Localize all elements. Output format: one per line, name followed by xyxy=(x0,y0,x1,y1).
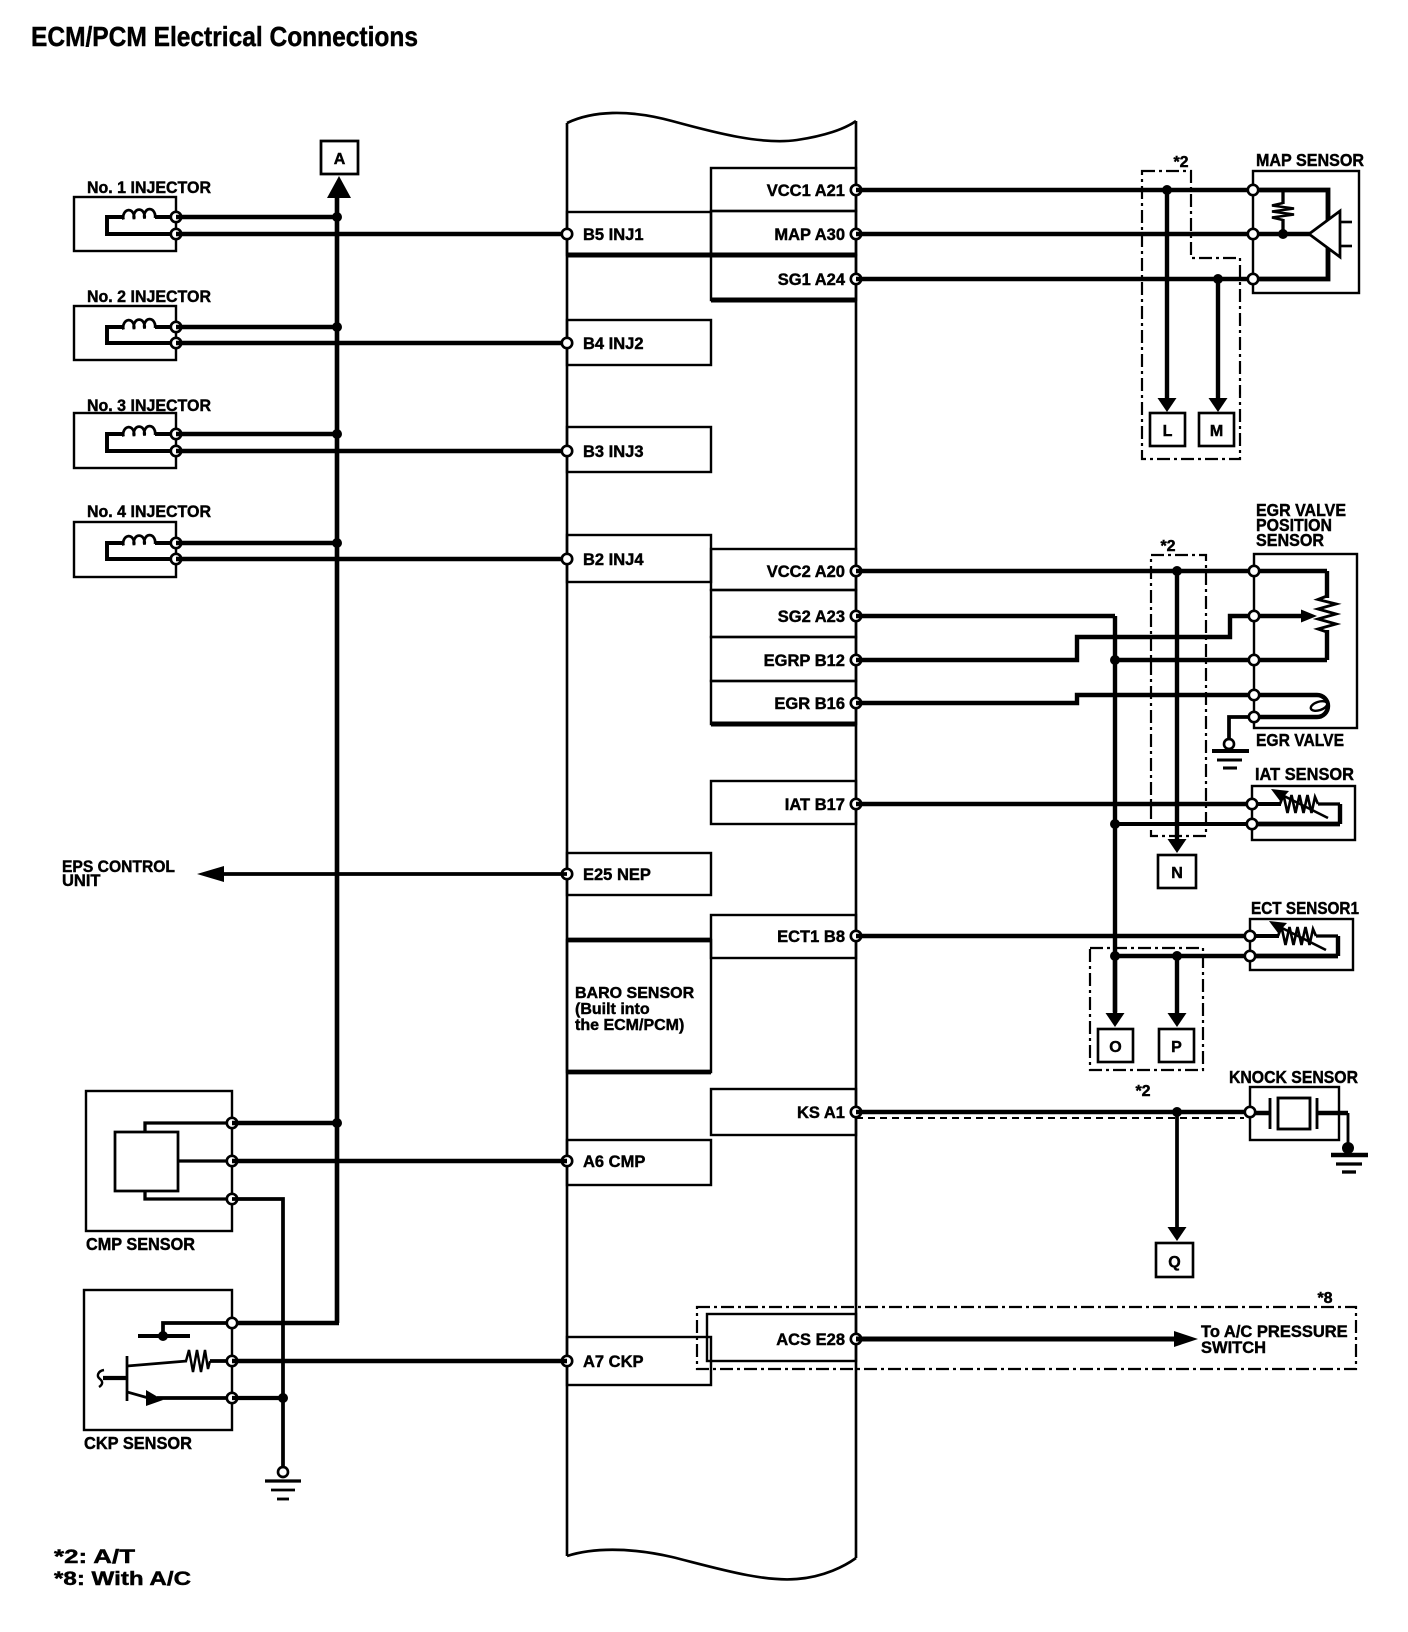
CKP ground symbol xyxy=(265,1467,301,1499)
wire MAP A30 to MAP sensor xyxy=(856,232,1253,236)
*2 label for O P box xyxy=(1135,1083,1150,1100)
ECT SENSOR1 label xyxy=(1251,898,1359,918)
injector No.4 box xyxy=(74,522,176,577)
EGR valve ground xyxy=(1212,739,1249,768)
ECM pin box VCC2 A20 xyxy=(711,549,856,590)
svg-text:ECM/PCM Electrical Connections: ECM/PCM Electrical Connections xyxy=(31,21,418,52)
knock sensor terminal xyxy=(1245,1107,1255,1117)
svg-text:ECT SENSOR1: ECT SENSOR1 xyxy=(1251,898,1359,918)
svg-text:the ECM/PCM): the ECM/PCM) xyxy=(575,1017,684,1034)
MAP SENSOR label xyxy=(1256,150,1364,170)
IAT sensor terminal signal xyxy=(1247,799,1257,809)
svg-text:*2: *2 xyxy=(1160,538,1175,555)
terminal MAP A30 xyxy=(851,229,861,239)
wire down to O xyxy=(1106,956,1125,1027)
dashed A/T box around O P xyxy=(1090,948,1203,1070)
ECM pin box EGR B16 xyxy=(711,681,856,724)
ECM pin box A6 CMP xyxy=(567,1140,711,1185)
wire SG1 A24 to MAP sensor xyxy=(856,277,1253,281)
wire CMP to A6 CMP xyxy=(232,1159,567,1163)
CKP sensor terminal middle xyxy=(227,1356,237,1366)
terminal EGR B16 xyxy=(851,698,861,708)
ECT sensor terminal signal xyxy=(1245,931,1255,941)
wire injector No.3 to bus xyxy=(176,432,337,436)
solenoid coil of injector No.3 xyxy=(107,426,176,451)
EGR valve terminal bottom xyxy=(1249,712,1259,722)
ECM pin box ECT1 B8 xyxy=(711,915,856,958)
ECM pin box VCC1 A21 xyxy=(711,168,856,211)
wire ACS E28 to A/C pressure switch xyxy=(856,1331,1198,1347)
MAP sensor resistor xyxy=(1272,190,1294,234)
wire down to L xyxy=(1158,190,1177,412)
svg-text:EGRP B12: EGRP B12 xyxy=(764,652,845,670)
MAP sensor terminal 3 xyxy=(1248,274,1258,284)
IAT SENSOR label xyxy=(1255,764,1354,784)
injector No.1 terminal top xyxy=(171,212,181,222)
EGR potentiometer bottom wire xyxy=(1254,658,1327,662)
ECM pin box B3 INJ3 xyxy=(567,427,711,472)
thick bottom edge of SG1 A24 box xyxy=(711,297,856,302)
wire injector No.3 to B3 INJ3 xyxy=(176,449,567,453)
CKP pickup core plate xyxy=(138,1323,232,1341)
wire IAT B17 to IAT sensor xyxy=(856,802,1252,806)
CKP pickup coil pole xyxy=(98,1356,127,1401)
junction on bus at injector No.2 xyxy=(332,322,342,332)
wire EGRP B12 with jogs to wiper xyxy=(856,616,1254,660)
svg-text:A7 CKP: A7 CKP xyxy=(583,1353,644,1371)
svg-text:Q: Q xyxy=(1168,1254,1180,1271)
terminal EGRP B12 xyxy=(851,655,861,665)
terminal B5 INJ1 xyxy=(562,229,572,239)
wire SG2 A23 right segment xyxy=(856,614,1115,618)
injector label No. 1 INJECTOR xyxy=(87,179,211,197)
svg-text:*8: With A/C: *8: With A/C xyxy=(54,1569,191,1590)
ECM pin box B2 INJ4 xyxy=(567,535,711,582)
connector O box xyxy=(1098,1029,1133,1062)
svg-text:IAT B17: IAT B17 xyxy=(785,796,845,814)
MAP sensor signal wire xyxy=(1253,232,1310,236)
svg-text:B3 INJ3: B3 INJ3 xyxy=(583,443,644,461)
connector N box xyxy=(1158,855,1196,888)
svg-text:ACS E28: ACS E28 xyxy=(776,1331,845,1349)
svg-text:BARO SENSOR: BARO SENSOR xyxy=(575,985,695,1002)
svg-text:VCC2 A20: VCC2 A20 xyxy=(767,563,845,581)
wire injector No.2 to B4 INJ2 xyxy=(176,341,567,345)
CMP sensor inner element box xyxy=(115,1132,178,1191)
wire bus to CKP top terminal xyxy=(232,1321,339,1326)
svg-text:VCC1 A21: VCC1 A21 xyxy=(767,182,845,200)
svg-text:CMP SENSOR: CMP SENSOR xyxy=(86,1234,195,1254)
svg-text:No. 2 INJECTOR: No. 2 INJECTOR xyxy=(87,288,211,306)
wire CKP ground segment xyxy=(232,1396,283,1400)
ECM pin box E25 NEP xyxy=(567,853,711,895)
CMP SENSOR label xyxy=(86,1234,195,1254)
terminal E25 NEP xyxy=(562,869,572,879)
svg-text:EGR B16: EGR B16 xyxy=(774,695,845,713)
terminal VCC2 A20 xyxy=(851,566,861,576)
knock sensor ground xyxy=(1331,1113,1368,1172)
connector M box xyxy=(1199,413,1234,446)
IAT sensor box xyxy=(1252,786,1355,840)
terminal B4 INJ2 xyxy=(562,338,572,348)
EGR position sensor box xyxy=(1254,554,1357,728)
svg-text:MAP A30: MAP A30 xyxy=(774,226,845,244)
svg-text:No. 4 INJECTOR: No. 4 INJECTOR xyxy=(87,503,211,521)
CKP resistor xyxy=(127,1350,232,1372)
terminal B2 INJ4 xyxy=(562,554,572,564)
svg-text:SG1 A24: SG1 A24 xyxy=(778,271,846,289)
svg-text:B4 INJ2: B4 INJ2 xyxy=(583,335,644,353)
ECM/PCM block wavy top edge xyxy=(567,113,856,141)
wire ECT1 B8 to ECT sensor xyxy=(856,934,1250,938)
injector No.4 terminal bottom xyxy=(171,554,181,564)
terminal SG2 A23 xyxy=(851,611,861,621)
EGR valve ground wire xyxy=(1229,717,1249,738)
junction ECT branch at SG2 line xyxy=(1110,951,1120,961)
footnote *8 With A/C xyxy=(54,1569,191,1590)
ECT sensor terminal ground xyxy=(1245,951,1255,961)
injector No.1 terminal bottom xyxy=(171,229,181,239)
*2 label for N box xyxy=(1160,538,1175,555)
terminal KS A1 xyxy=(851,1107,861,1117)
EGR sensor terminal wiper xyxy=(1249,611,1259,621)
junction CMP at bus xyxy=(332,1118,342,1128)
junction on bus at injector No.1 xyxy=(332,212,342,222)
knock sensor box xyxy=(1250,1087,1339,1140)
ECM pin box ACS E28 xyxy=(707,1314,856,1361)
injector No.4 terminal top xyxy=(171,538,181,548)
wire IAT sensor ground branch xyxy=(1115,822,1252,826)
svg-text:MAP SENSOR: MAP SENSOR xyxy=(1256,150,1364,170)
terminal A6 CMP xyxy=(562,1156,572,1166)
svg-text:SWITCH: SWITCH xyxy=(1201,1339,1266,1357)
svg-text:ECT1 B8: ECT1 B8 xyxy=(777,928,845,946)
footnote *2 A/T xyxy=(54,1547,136,1568)
ECM pin box EGRP B12 xyxy=(711,637,856,681)
svg-text:E25 NEP: E25 NEP xyxy=(583,866,651,884)
MAP sensor box xyxy=(1253,171,1359,293)
svg-text:*2: *2 xyxy=(1135,1083,1150,1100)
thick bottom edge of EGR B16 box xyxy=(711,721,856,726)
dashed A/T box around N xyxy=(1151,555,1206,836)
wire down to M xyxy=(1209,279,1228,412)
CMP sensor terminal top xyxy=(227,1118,237,1128)
CMP inner wire bottom xyxy=(145,1190,232,1199)
svg-text:B5 INJ1: B5 INJ1 xyxy=(583,226,644,244)
svg-text:*2: *2 xyxy=(1173,154,1188,171)
MAP sensor terminal 1 xyxy=(1248,185,1258,195)
ECM pin box B4 INJ2 xyxy=(567,320,711,365)
terminal SG1 A24 xyxy=(851,274,861,284)
terminal B3 INJ3 xyxy=(562,446,572,456)
injector No.2 terminal top xyxy=(171,322,181,332)
EGR VALVE label xyxy=(1256,730,1344,750)
wire down to P xyxy=(1168,956,1187,1027)
EGR sensor terminal VCC2 xyxy=(1249,566,1259,576)
wire down to Q xyxy=(1168,1112,1187,1241)
junction IAT ground branch xyxy=(1110,819,1120,829)
node A box xyxy=(321,141,358,174)
knock sensor piezo element xyxy=(1250,1098,1348,1129)
terminal ACS E28 xyxy=(851,1334,861,1344)
wire SG2 vertical down xyxy=(1113,616,1117,1012)
CKP SENSOR label xyxy=(84,1433,192,1453)
EGR potentiometer resistor xyxy=(1318,571,1336,660)
ECM pin box SG2 A23 xyxy=(711,590,856,637)
KS shield dashed line xyxy=(856,1117,1244,1119)
wire EGR B16 with jog to EGR valve xyxy=(856,695,1254,703)
junction on bus at injector No.4 xyxy=(332,538,342,548)
wire down to N xyxy=(1168,571,1187,853)
EPS CONTROL UNIT label xyxy=(62,858,175,890)
wire injector No.1 to B5 INJ1 xyxy=(176,232,567,236)
svg-text:No. 1 INJECTOR: No. 1 INJECTOR xyxy=(87,179,211,197)
junction VCC1 to L xyxy=(1162,185,1172,195)
solenoid coil of injector No.1 xyxy=(107,209,176,234)
wire VCC1 A21 to MAP sensor xyxy=(856,188,1253,192)
ECT thermistor xyxy=(1250,921,1338,956)
ECM pin box KS A1 xyxy=(711,1089,856,1135)
junction SG2 branch to EGR sensor xyxy=(1110,655,1120,665)
wire VCC2 A20 to EGR position sensor xyxy=(856,569,1254,573)
svg-text:N: N xyxy=(1171,865,1183,882)
injector No.3 terminal bottom xyxy=(171,446,181,456)
arrow to EPS control unit xyxy=(197,866,224,882)
injector No.3 box xyxy=(74,413,176,468)
BARO sensor box (built into ECM) xyxy=(567,940,711,1072)
EGR valve terminal top xyxy=(1249,690,1259,700)
connector Q box xyxy=(1156,1243,1193,1277)
title text xyxy=(31,21,418,52)
dashed A/T box around L M xyxy=(1142,171,1240,459)
EGR wiper arrow wire xyxy=(1254,610,1317,623)
wire SG2 branch to EGR sensor low side xyxy=(1115,658,1254,662)
CMP inner wire top xyxy=(145,1123,232,1133)
injector No.3 terminal top xyxy=(171,429,181,439)
arrow up into node A xyxy=(327,176,351,1323)
ECM pin box SG1 A24 xyxy=(711,255,856,300)
junction KS to Q xyxy=(1172,1107,1182,1117)
wire ECT ground branch xyxy=(1115,954,1250,958)
svg-text:KNOCK SENSOR: KNOCK SENSOR xyxy=(1229,1067,1358,1087)
svg-text:IAT SENSOR: IAT SENSOR xyxy=(1255,764,1354,784)
wire CKP to A7 CKP xyxy=(232,1359,567,1363)
IAT thermistor xyxy=(1252,789,1340,824)
ECT sensor box xyxy=(1250,919,1353,970)
*2 label for L M box xyxy=(1173,154,1188,171)
svg-text:KS A1: KS A1 xyxy=(797,1104,845,1122)
thick line under B5 INJ1 and MAP A30 row xyxy=(567,252,856,257)
CMP sensor terminal bottom xyxy=(227,1194,237,1204)
ECM/PCM block wavy bottom edge xyxy=(567,1550,856,1580)
junction ECT branch to P xyxy=(1172,951,1182,961)
ECM/PCM block right edge wire xyxy=(855,121,858,1558)
wire injector No.4 to B2 INJ4 xyxy=(176,557,567,561)
injector label No. 2 INJECTOR xyxy=(87,288,211,306)
To A/C PRESSURE SWITCH label xyxy=(1201,1323,1348,1357)
EGR VALVE POSITION SENSOR label xyxy=(1256,500,1346,550)
MAP sensor supply loop wire xyxy=(1253,190,1328,279)
svg-text:L: L xyxy=(1163,423,1173,440)
CKP sensor terminal bottom xyxy=(227,1393,237,1403)
CMP sensor terminal middle xyxy=(227,1156,237,1166)
MAP sensor terminal 2 xyxy=(1248,229,1258,239)
solenoid coil of injector No.4 xyxy=(107,535,176,559)
MAP transducer output stubs xyxy=(1340,222,1352,246)
svg-text:(Built into: (Built into xyxy=(575,1001,650,1018)
injector No.2 terminal bottom xyxy=(171,338,181,348)
svg-text:A6 CMP: A6 CMP xyxy=(583,1153,645,1171)
svg-text:O: O xyxy=(1109,1039,1121,1056)
CKP sensor box xyxy=(84,1290,232,1430)
svg-text:*2: A/T: *2: A/T xyxy=(54,1547,136,1568)
EGR potentiometer top wire xyxy=(1254,569,1327,573)
IAT sensor terminal ground xyxy=(1247,819,1257,829)
terminal A7 CKP xyxy=(562,1356,572,1366)
KNOCK SENSOR label xyxy=(1229,1067,1358,1087)
CMP inner wire middle xyxy=(178,1159,232,1162)
CKP sensor terminal top xyxy=(227,1318,237,1328)
svg-text:A: A xyxy=(334,151,346,168)
wire injector No.2 to bus xyxy=(176,325,337,329)
junction CKP ground xyxy=(278,1393,288,1403)
wire injector No.1 to bus xyxy=(176,215,337,219)
svg-text:*8: *8 xyxy=(1317,1290,1332,1307)
ECM pin box B5 INJ1 xyxy=(567,212,711,255)
terminal VCC1 A21 xyxy=(851,185,861,195)
terminal ECT1 B8 xyxy=(851,931,861,941)
wire E25 NEP to EPS control unit xyxy=(220,872,567,876)
connector L box xyxy=(1150,413,1185,446)
svg-text:UNIT: UNIT xyxy=(62,872,101,890)
ECM/PCM block left edge wire xyxy=(566,123,569,1556)
injector No.1 box xyxy=(74,197,176,251)
EGR sensor terminal SG2 xyxy=(1249,655,1259,665)
svg-text:CKP SENSOR: CKP SENSOR xyxy=(84,1433,192,1453)
svg-text:M: M xyxy=(1210,423,1223,440)
terminal IAT B17 xyxy=(851,799,861,809)
EGR valve solenoid hairpin xyxy=(1254,695,1328,717)
junction on bus at injector No.3 xyxy=(332,429,342,439)
junction VCC2 to N xyxy=(1172,566,1182,576)
MAP sensor transducer triangle xyxy=(1309,211,1340,257)
junction MAP resistor to signal xyxy=(1278,229,1288,239)
CMP sensor box xyxy=(86,1091,232,1231)
svg-text:B2 INJ4: B2 INJ4 xyxy=(583,551,644,569)
injector label No. 3 INJECTOR xyxy=(87,397,211,415)
svg-text:SG2 A23: SG2 A23 xyxy=(778,608,845,626)
solenoid coil of injector No.2 xyxy=(107,319,176,343)
dashed With-A/C box xyxy=(697,1307,1356,1369)
svg-text:P: P xyxy=(1171,1039,1182,1056)
injector No.2 box xyxy=(74,306,176,360)
*8 label xyxy=(1317,1290,1332,1307)
injector label No. 4 INJECTOR xyxy=(87,503,211,521)
junction SG1 to M xyxy=(1213,274,1223,284)
wire injector No.4 to bus xyxy=(176,541,337,545)
CKP output arrow xyxy=(127,1390,232,1406)
connector P box xyxy=(1159,1029,1194,1062)
BARO sensor label xyxy=(575,985,695,1034)
wire CMP ground segment xyxy=(232,1199,283,1468)
ECM pin box IAT B17 xyxy=(711,781,856,824)
ECM pin box A7 CKP xyxy=(567,1337,711,1385)
ECM pin box MAP A30 xyxy=(711,211,856,255)
svg-text:SENSOR: SENSOR xyxy=(1256,530,1324,550)
wire KS A1 to knock sensor xyxy=(856,1110,1250,1114)
svg-text:EGR VALVE: EGR VALVE xyxy=(1256,730,1344,750)
wire CMP top to bus xyxy=(232,1121,337,1126)
